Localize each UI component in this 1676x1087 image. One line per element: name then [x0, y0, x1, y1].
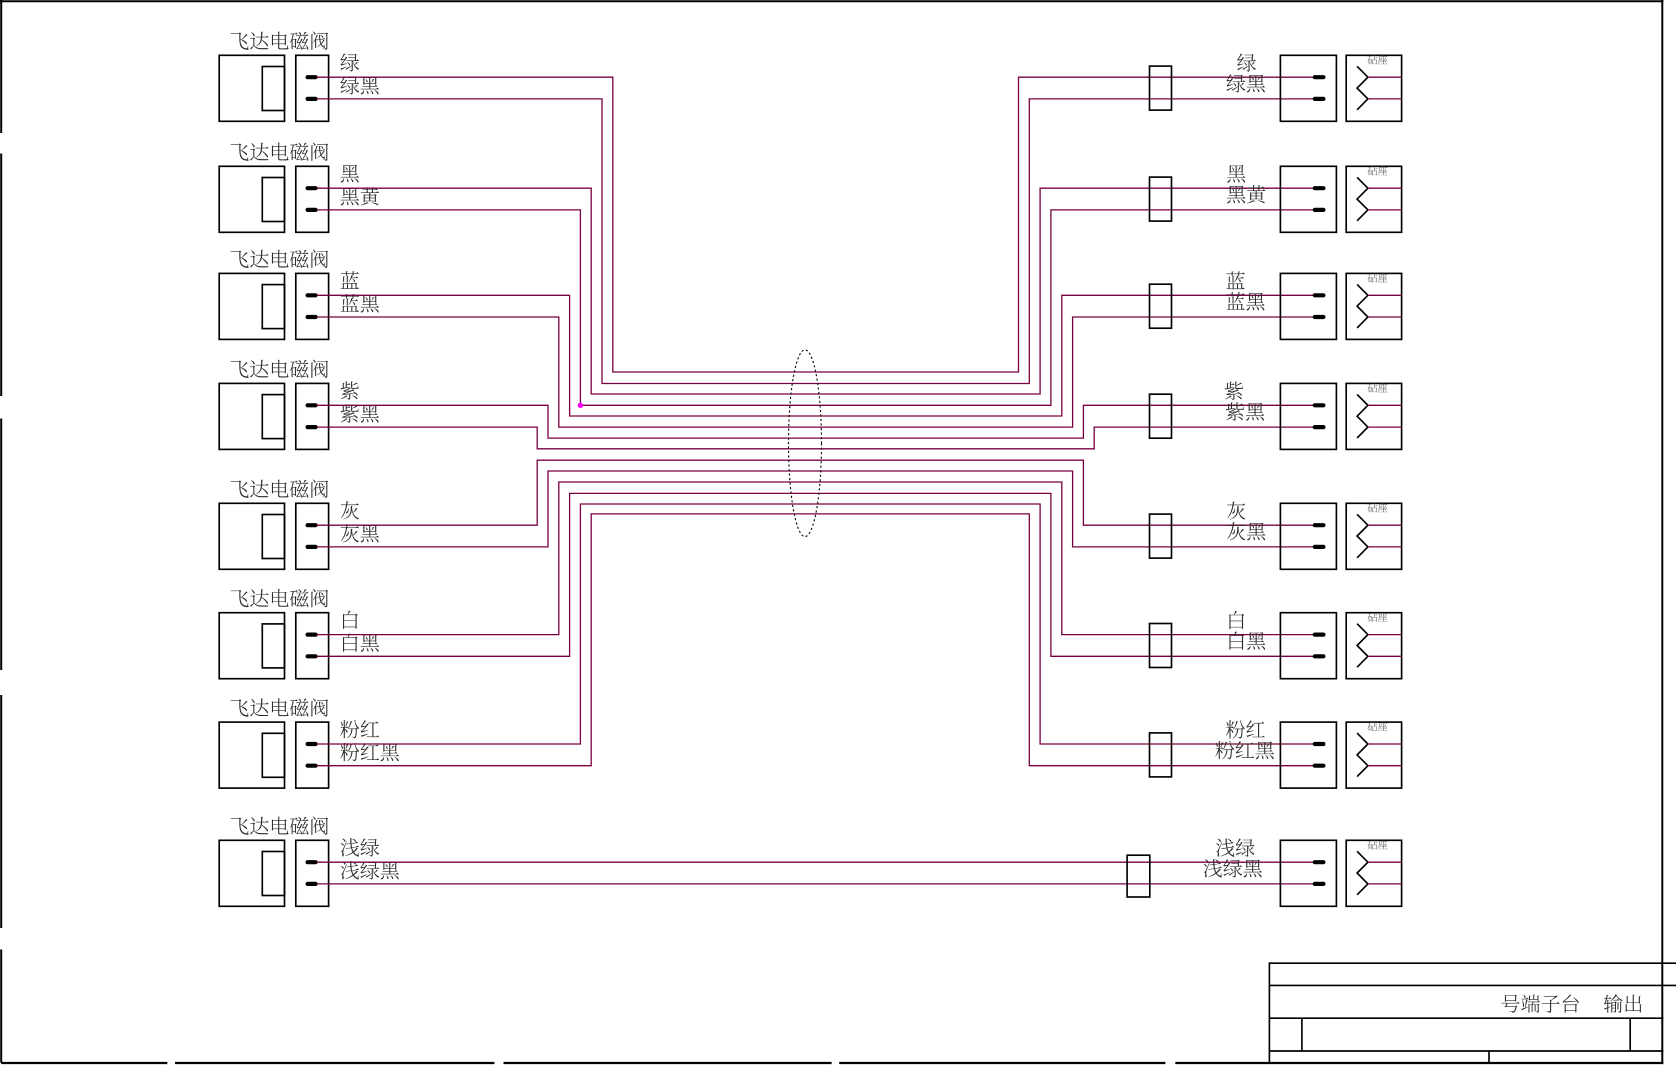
wire 浅绿 socket stub: [1368, 861, 1402, 863]
socket X8 (砧座): [1346, 840, 1401, 906]
valve V2 body: [219, 166, 284, 232]
valve V6 label 飞达电磁阀: [231, 589, 329, 607]
terminal connector CN6: [1280, 613, 1336, 679]
title text 号端子台 输出: [1502, 994, 1579, 1012]
socket X5 label 砧座: [1368, 503, 1388, 512]
valve V3 label 飞达电磁阀: [231, 250, 329, 268]
cable marker tag row 3: [1150, 284, 1172, 328]
terminal connector CN2: [1280, 166, 1336, 232]
wire 黑 (V2.1 to CN2.1): [317, 188, 1314, 394]
wire 粉红黑 socket stub: [1368, 765, 1402, 767]
cable marker tag row 6: [1150, 624, 1172, 668]
net label 灰 (right): [1227, 501, 1245, 519]
valve V4 label 飞达电磁阀: [231, 360, 329, 378]
terminal connector CN5: [1280, 503, 1336, 569]
net label 浅绿 (right): [1216, 838, 1255, 856]
title block: [1269, 962, 1676, 1063]
wire 蓝黑 (V3.2 to CN3.2): [317, 317, 1314, 427]
valve V1 plug P1: [296, 55, 329, 121]
net label 浅绿黑 (left): [341, 861, 399, 879]
frame right border: [1661, 0, 1663, 1063]
wire 灰 (V5.1 to CN5.1): [317, 460, 1314, 525]
valve V2 label 飞达电磁阀: [231, 143, 329, 161]
valve V1 body: [219, 55, 284, 121]
net label 浅绿黑 (right): [1203, 859, 1261, 877]
valve V5 plug P5: [296, 503, 329, 569]
valve V7 plug P7: [296, 722, 329, 788]
cable marker tag row 2: [1150, 177, 1172, 221]
wire 粉红 socket stub: [1368, 743, 1402, 745]
net label 黑黄 (left): [341, 187, 379, 205]
socket X8 label 砧座: [1368, 840, 1388, 849]
net label 绿黑 (left): [340, 76, 379, 94]
net label 紫黑 (right): [1226, 402, 1264, 420]
wire 紫 (V4.1 to CN4.1): [317, 405, 1314, 438]
socket X1 (砧座): [1346, 55, 1401, 121]
wire 灰黑 socket stub: [1368, 546, 1402, 548]
wire 绿 socket stub: [1368, 76, 1402, 78]
wire 绿黑 (V1.2 to CN1.2): [317, 99, 1314, 384]
socket X1 label 砧座: [1368, 55, 1388, 64]
wire 蓝黑 socket stub: [1368, 316, 1402, 318]
wire 灰 socket stub: [1368, 524, 1402, 526]
cable marker tag row 8: [1127, 855, 1150, 897]
wire 灰黑 (V5.2 to CN5.2): [317, 471, 1314, 547]
terminal connector CN3: [1280, 273, 1336, 339]
wire 黑黄 socket stub: [1368, 209, 1402, 211]
frame left border: [0, 0, 2, 1063]
wire 浅绿黑 (V8.2 to CN8.2): [317, 883, 1314, 885]
cable marker tag row 1: [1150, 66, 1172, 110]
net label 黑黄 (right): [1227, 185, 1265, 203]
net label 粉红 (right): [1226, 720, 1265, 738]
wire 蓝 (V3.1 to CN3.1): [317, 295, 1314, 416]
net label 白 (right): [1229, 611, 1244, 629]
valve V2 plug P2: [296, 166, 329, 232]
frame bottom border: [1, 1062, 1663, 1064]
socket X3 label 砧座: [1368, 273, 1388, 282]
junction dot node (绿黑 corner on 紫 wire): [578, 403, 583, 408]
socket X6 label 砧座: [1368, 612, 1388, 621]
net label 黑 (left): [341, 165, 359, 183]
valve V4 body: [219, 383, 284, 449]
terminal connector CN4: [1280, 383, 1336, 449]
net label 绿 (left): [340, 53, 359, 71]
net label 粉红 (left): [340, 720, 379, 738]
valve V4 plug P4: [296, 383, 329, 449]
net label 蓝黑 (right): [1226, 292, 1264, 310]
terminal connector CN1: [1280, 55, 1336, 121]
wire 白黑 (V6.2 to CN6.2): [317, 493, 1314, 656]
net label 粉红黑 (left): [340, 743, 399, 761]
net label 灰 (left): [341, 501, 359, 519]
socket X4 label 砧座: [1368, 383, 1388, 392]
net label 紫黑 (left): [341, 404, 379, 422]
net label 浅绿 (left): [341, 838, 380, 856]
socket X3 (砧座): [1346, 273, 1401, 339]
valve V6 body: [219, 613, 284, 679]
wire 黑黄 (V2.2 to CN2.2): [317, 210, 1314, 405]
valve V3 plug P3: [296, 273, 329, 339]
frame top border: [0, 0, 1663, 2]
terminal connector CN7: [1280, 722, 1336, 788]
wire 绿 (V1.1 to CN1.1): [317, 77, 1314, 372]
valve V5 label 飞达电磁阀: [231, 480, 329, 498]
socket X2 (砧座): [1346, 166, 1401, 232]
net label 灰黑 (left): [341, 524, 379, 542]
net label 蓝 (left): [341, 271, 359, 289]
net label 白黑 (right): [1229, 632, 1265, 650]
net label 白黑 (left): [343, 634, 379, 652]
wire 绿黑 socket stub: [1368, 98, 1402, 100]
valve V7 label 飞达电磁阀: [231, 698, 329, 716]
net label 绿 (right): [1237, 54, 1256, 72]
net label 绿黑 (right): [1227, 74, 1266, 92]
socket X7 label 砧座: [1368, 722, 1388, 731]
socket X4 (砧座): [1346, 383, 1401, 449]
socket X2 label 砧座: [1368, 166, 1388, 175]
wire 黑 socket stub: [1368, 187, 1402, 189]
wire 紫 socket stub: [1368, 404, 1402, 406]
wire 浅绿黑 socket stub: [1368, 883, 1402, 885]
valve V6 plug P6: [296, 613, 329, 679]
socket X6 (砧座): [1346, 613, 1401, 679]
wire 白 (V6.1 to CN6.1): [317, 482, 1314, 635]
valve V7 body: [219, 722, 284, 788]
wire 蓝 socket stub: [1368, 294, 1402, 296]
valve V5 body: [219, 503, 284, 569]
wire 粉红黑 (V7.2 to CN7.2): [317, 514, 1314, 766]
cable bundle ellipse: [789, 350, 822, 537]
valve V8 plug P8: [296, 840, 329, 906]
cable marker tag row 5: [1150, 514, 1172, 558]
wire 白 socket stub: [1368, 634, 1402, 636]
wire 紫黑 (V4.2 to CN4.2): [317, 427, 1314, 449]
socket X7 (砧座): [1346, 722, 1401, 788]
valve V8 body: [219, 840, 284, 906]
net label 蓝黑 (left): [341, 294, 379, 312]
valve V3 body: [219, 273, 284, 339]
valve V8 label 飞达电磁阀: [231, 817, 329, 835]
net label 紫 (left): [341, 381, 359, 399]
wire 粉红 (V7.1 to CN7.1): [317, 504, 1314, 744]
net label 灰黑 (right): [1227, 522, 1265, 540]
wire 紫黑 socket stub: [1368, 426, 1402, 428]
cable marker tag row 4: [1150, 394, 1172, 438]
net label 黑 (right): [1227, 165, 1245, 183]
terminal connector CN8: [1280, 840, 1336, 906]
socket X5 (砧座): [1346, 503, 1401, 569]
net label 白 (left): [343, 611, 358, 629]
net label 紫 (right): [1225, 382, 1243, 400]
net label 粉红黑 (right): [1215, 741, 1274, 759]
wire 浅绿 (V8.1 to CN8.1): [317, 861, 1314, 863]
net label 蓝 (right): [1226, 271, 1244, 289]
cable marker tag row 7: [1150, 733, 1172, 777]
wire 白黑 socket stub: [1368, 655, 1402, 657]
valve V1 label 飞达电磁阀: [231, 32, 329, 50]
